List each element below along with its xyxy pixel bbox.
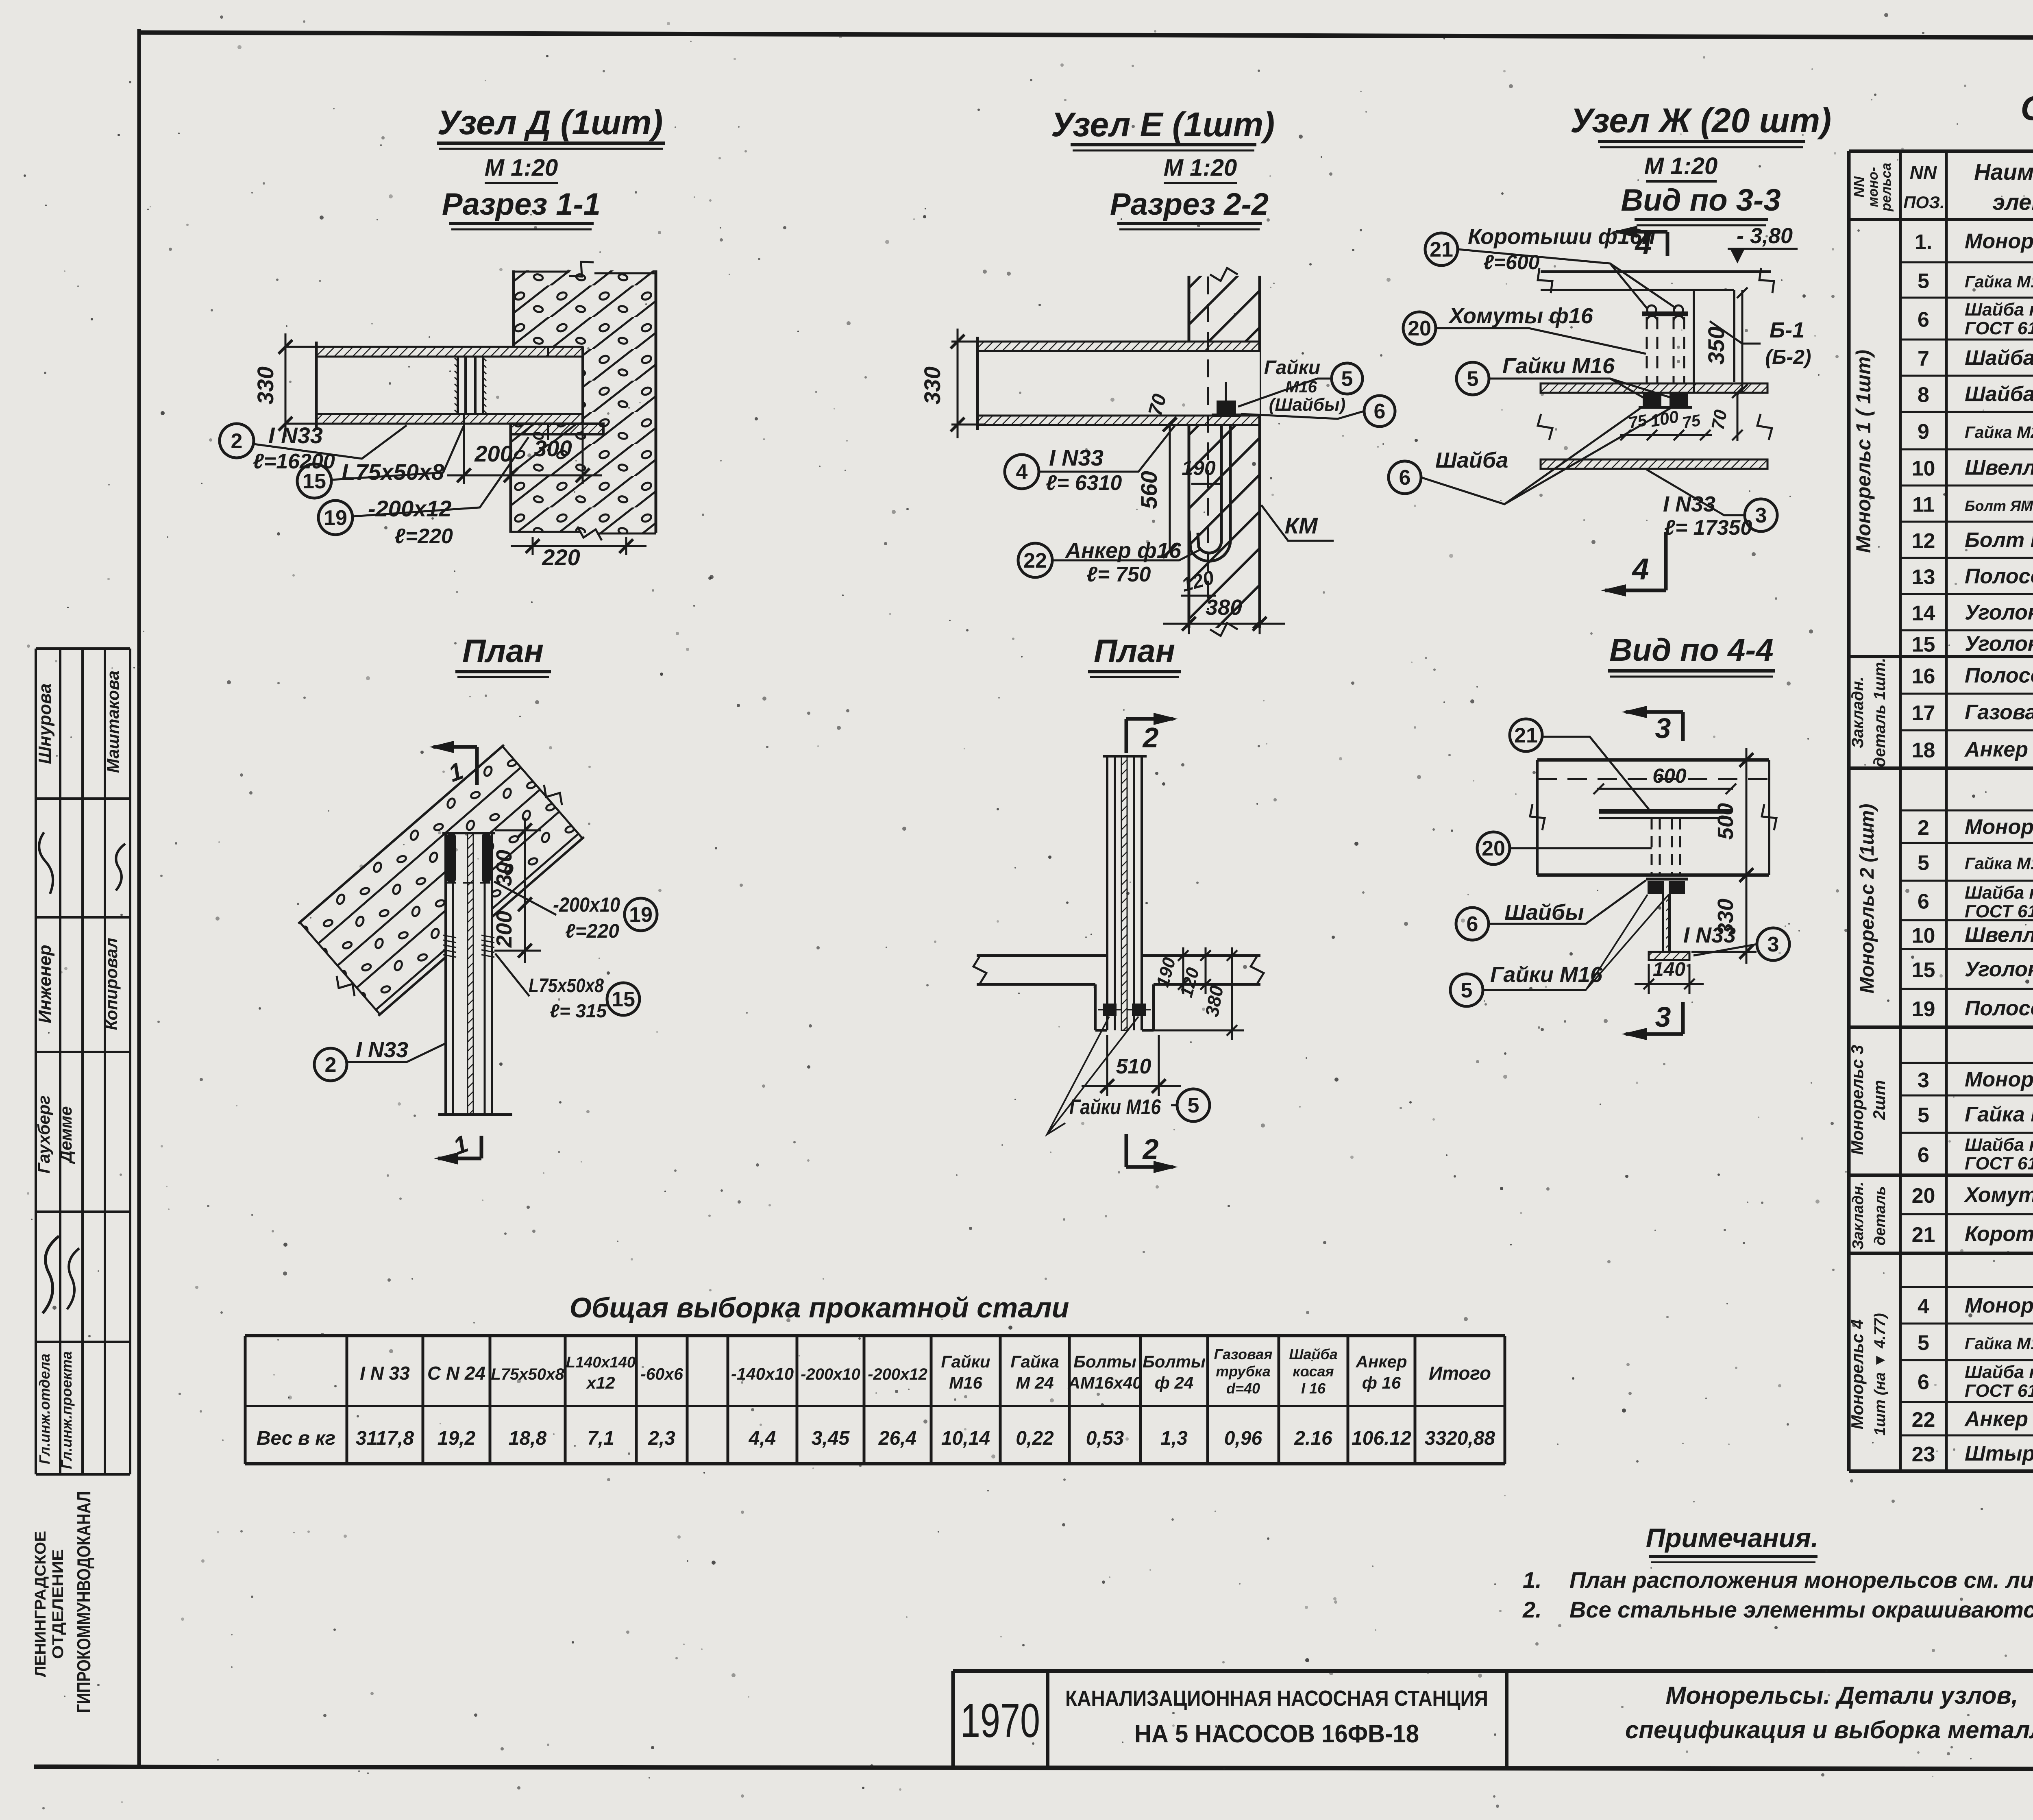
svg-text:350: 350 (1703, 327, 1729, 364)
svg-text:23: 23 (1912, 1443, 1935, 1466)
svg-text:Инженер: Инженер (35, 945, 55, 1023)
callout 19: -200x12 l=220 (318, 501, 353, 535)
svg-text:I 16: I 16 (1301, 1380, 1326, 1397)
svg-text:4,4: 4,4 (749, 1428, 776, 1449)
svg-text:Шайба косая I16: Шайба косая I16 (1965, 883, 2033, 903)
узел Е: dimension 330 (951, 341, 984, 343)
svg-text:4: 4 (1016, 460, 1028, 484)
узел Ж: hanger bolts (хомуты) dashed (1646, 317, 1648, 383)
svg-text:3320,88: 3320,88 (1425, 1428, 1495, 1449)
svg-text:Анкер: Анкер (1964, 738, 2028, 762)
svg-text:-200x12: -200x12 (368, 496, 452, 521)
svg-text:Гайка М16 ГОСТ 5909-51: Гайка М16 ГОСТ 5909-51 (1965, 854, 2033, 873)
svg-text:Гайка М16 ГОСТ 5909-51: Гайка М16 ГОСТ 5909-51 (1965, 1334, 2033, 1353)
svg-text:13: 13 (1912, 566, 1935, 589)
svg-text:300: 300 (534, 435, 572, 461)
svg-text:-200х10: -200х10 (801, 1365, 860, 1383)
svg-text:Болты: Болты (1143, 1352, 1206, 1371)
svg-text:Швеллер: Швеллер (1965, 923, 2033, 947)
svg-text:L75х50х8: L75х50х8 (491, 1365, 564, 1383)
svg-text:Гл.инж.отдела: Гл.инж.отдела (36, 1354, 53, 1464)
svg-text:2: 2 (1142, 1133, 1159, 1165)
svg-text:косая: косая (1293, 1363, 1334, 1380)
svg-text:Гайка: Гайка (1010, 1352, 1059, 1371)
узел Ж: slab lines (1541, 270, 1771, 273)
svg-text:1,3: 1,3 (1160, 1428, 1188, 1449)
callout 20 (вид 4-4) (1477, 832, 1510, 864)
план-2: dimension 510 (1106, 1035, 1108, 1096)
signature: band 5 squiggles (43, 1236, 59, 1313)
svg-text:Гл.инж.проекта: Гл.инж.проекта (58, 1351, 75, 1469)
svg-text:d=40: d=40 (1226, 1380, 1260, 1397)
svg-text:ГОСТ 6184-52: ГОСТ 6184-52 (1965, 1381, 2033, 1401)
svg-text:Коротыши ф16п: Коротыши ф16п (1468, 224, 1655, 249)
svg-text:Газовая: Газовая (1214, 1346, 1272, 1363)
svg-text:300: 300 (492, 850, 516, 886)
узел Д: bearing plate -200x12 (поз.19) (511, 424, 603, 434)
вид 4-4: beam web and bottom flange (1662, 894, 1664, 952)
svg-text:Полосовое железо: Полосовое железо (1965, 565, 2033, 588)
svg-text:Шайба косая I16: Шайба косая I16 (1965, 1135, 2033, 1155)
svg-text:Узел Ж (20 шт): Узел Ж (20 шт) (1570, 101, 1831, 139)
svg-text:Разрез 1-1: Разрез 1-1 (442, 187, 601, 222)
svg-text:21: 21 (1514, 724, 1538, 747)
svg-text:2: 2 (325, 1053, 337, 1077)
svg-text:2: 2 (231, 429, 243, 453)
svg-text:I N33: I N33 (356, 1038, 408, 1062)
svg-text:8: 8 (1918, 383, 1929, 407)
план-2: section marker 2 (top) (1125, 719, 1128, 753)
план-2: beam I N33 in plan (поз.4) (1106, 756, 1108, 1030)
svg-text:3: 3 (1767, 933, 1779, 956)
svg-text:Шайбы: Шайбы (1504, 900, 1584, 925)
svg-text:Б-1: Б-1 (1770, 318, 1804, 342)
svg-text:Штыри: Штыри (1965, 1442, 2033, 1465)
вид 4-4: slab rectangle (1537, 758, 1769, 762)
svg-text:2: 2 (1918, 816, 1929, 840)
svg-text:х12: х12 (586, 1373, 615, 1392)
svg-text:М 24: М 24 (1016, 1373, 1054, 1392)
callout 2: I N33 (план-1) (314, 1048, 347, 1081)
svg-text:ГОСТ 6184-52: ГОСТ 6184-52 (1965, 901, 2033, 921)
svg-text:спецификация и выборка мета: спецификация и выборка металла (1625, 1716, 2033, 1744)
svg-text:20: 20 (1408, 317, 1431, 340)
svg-text:Шайба: Шайба (1435, 448, 1508, 472)
svg-text:220: 220 (542, 544, 580, 570)
svg-text:5: 5 (1467, 367, 1479, 391)
узел Ж: dimension 350 (1741, 290, 1744, 392)
svg-text:18,8: 18,8 (509, 1428, 547, 1449)
спецификация: table grid (1849, 150, 2033, 153)
svg-text:21: 21 (1912, 1223, 1935, 1247)
svg-text:Закладн.: Закладн. (1850, 1182, 1867, 1250)
svg-text:12: 12 (1912, 529, 1935, 553)
выборка: table grid (245, 1334, 1505, 1337)
вид 4-4: dimension 500 (1746, 748, 1748, 886)
svg-text:Примечания.: Примечания. (1646, 1523, 1819, 1553)
svg-text:22: 22 (1912, 1408, 1935, 1432)
signature: band 2 squiggles (34, 832, 60, 894)
svg-text:70: 70 (1708, 408, 1731, 431)
svg-text:15: 15 (612, 988, 635, 1011)
план-1: plate -200x10 side bars (поз.19) (447, 833, 456, 883)
svg-text:Хомуты ф16: Хомуты ф16 (1448, 304, 1593, 328)
svg-text:-140х10: -140х10 (731, 1364, 794, 1383)
svg-text:Демме: Демме (56, 1106, 75, 1164)
узел Ж: beam Б-1 (Б-2) outline (1693, 290, 1695, 392)
svg-text:ℓ= 6310: ℓ= 6310 (1046, 471, 1122, 495)
svg-text:Монорельс: Монорельс (1965, 230, 2033, 253)
svg-text:Анкер: Анкер (1356, 1352, 1407, 1371)
callout 5: гайки М16 (план-2) (1177, 1089, 1210, 1121)
svg-text:элементов: элементов (1992, 189, 2033, 215)
узел Д: concrete wall hatched (514, 270, 656, 347)
узел Е: dimension 560 (1169, 425, 1171, 553)
svg-text:16: 16 (1912, 665, 1935, 688)
svg-text:18: 18 (1912, 739, 1935, 762)
узел Д: dimension 330 (beam height) (285, 346, 321, 348)
svg-text:6: 6 (1374, 400, 1386, 423)
план-1: section marker 1 (bottom) (480, 1136, 483, 1158)
svg-text:19: 19 (629, 903, 653, 927)
svg-text:7,1: 7,1 (587, 1428, 614, 1449)
svg-text:I N33: I N33 (1683, 923, 1736, 947)
svg-text:ℓ= 315: ℓ= 315 (550, 1000, 607, 1021)
svg-text:Гайки М16: Гайки М16 (1502, 354, 1615, 378)
svg-text:15: 15 (1912, 958, 1935, 982)
svg-text:М 1:20: М 1:20 (1164, 155, 1237, 181)
callout 20: хомуты ф16 (1403, 312, 1436, 344)
svg-text:рельса: рельса (1878, 163, 1894, 211)
svg-text:0,22: 0,22 (1016, 1428, 1054, 1449)
svg-text:Узел Е (1шт): Узел Е (1шт) (1051, 105, 1275, 144)
svg-text:Шайба косая I16: Шайба косая I16 (1965, 300, 2033, 320)
план-1: concrete wall band (diagonal) (298, 745, 584, 1016)
план-1: beam I N33 in plan (поз.2) (446, 833, 492, 1115)
svg-text:Гайка М24 ГОСТ 5909-57: Гайка М24 ГОСТ 5909-57 (1965, 423, 2033, 442)
svg-text:6: 6 (1399, 466, 1411, 490)
вид 4-4: hangers dashed (1651, 818, 1653, 875)
svg-text:4: 4 (1631, 552, 1649, 586)
план-2: dimensions 190 120 380 (1142, 955, 1244, 957)
узел Ж: dimension 70 (1737, 393, 1739, 441)
svg-text:14: 14 (1912, 602, 1935, 625)
svg-text:Монорельс 3: Монорельс 3 (1848, 1045, 1867, 1155)
svg-text:0,96: 0,96 (1224, 1428, 1262, 1449)
svg-text:3: 3 (1655, 712, 1671, 744)
svg-text:деталь: деталь (1872, 1186, 1889, 1245)
svg-text:3117,8: 3117,8 (356, 1428, 414, 1449)
svg-text:КАНАЛИЗАЦИОННАЯ НАСОСНАЯ: КАНАЛИЗАЦИОННАЯ НАСОСНАЯ СТАНЦИЯ (1065, 1686, 1488, 1711)
svg-text:Хомут: Хомут (1963, 1183, 2033, 1207)
svg-text:20: 20 (1482, 837, 1505, 860)
callout 21: коротыши ф16п l=600 (1425, 233, 1458, 266)
svg-text:0,53: 0,53 (1086, 1428, 1124, 1449)
svg-text:Коротыш: Коротыш (1965, 1222, 2033, 1246)
svg-text:2.: 2. (1522, 1597, 1542, 1622)
svg-text:Уголок: Уголок (1965, 958, 2033, 981)
вид 4-4: section marker 3 (bottom) (1681, 1002, 1685, 1034)
svg-text:5: 5 (1918, 270, 1929, 293)
svg-text:5: 5 (1918, 851, 1929, 875)
svg-text:Полосовое железо: Полосовое железо (1965, 664, 2033, 688)
svg-text:ℓ=220: ℓ=220 (394, 525, 453, 548)
svg-text:190: 190 (1182, 457, 1216, 479)
svg-text:ГИПРОКОММУНВОДОКАНАЛ: ГИПРОКОММУНВОДОКАНАЛ (73, 1491, 94, 1713)
svg-text:Вид по 3-3: Вид по 3-3 (1621, 183, 1781, 218)
callout 3: I N33 (вид 4-4) (1757, 928, 1789, 960)
svg-text:Гайка М16 ГОСТ 5909-51: Гайка М16 ГОСТ 5909-51 (1965, 272, 2033, 291)
callout 3: I N33 l=17350 (1745, 499, 1777, 531)
title block frame (953, 1669, 2033, 1673)
вид 4-4: section marker 3 (top) (1626, 710, 1683, 714)
svg-text:4: 4 (1918, 1295, 1929, 1318)
svg-text:7: 7 (1918, 347, 1929, 371)
svg-text:19: 19 (324, 506, 347, 530)
узел Ж: dimensions 75 100 75 (1620, 434, 1712, 436)
svg-text:330: 330 (919, 366, 945, 404)
svg-text:ф 24: ф 24 (1155, 1373, 1194, 1392)
svg-text:М 1:20: М 1:20 (485, 155, 558, 181)
узел Ж: section marker 4 (bottom) (1664, 532, 1668, 590)
svg-text:9: 9 (1918, 420, 1929, 444)
svg-text:1.: 1. (1915, 231, 1932, 254)
svg-text:26,4: 26,4 (878, 1428, 916, 1449)
svg-text:2.16: 2.16 (1294, 1428, 1332, 1449)
svg-text:22: 22 (1023, 549, 1047, 573)
callout 6: шайбы (вид 4-4) (1456, 908, 1489, 940)
узел Д: monorail beam I N33 (поз.2) section (316, 357, 583, 414)
svg-text:Анкер ф16: Анкер ф16 (1064, 538, 1182, 563)
svg-text:М16: М16 (949, 1373, 982, 1392)
svg-text:Гайки: Гайки (941, 1352, 990, 1371)
svg-text:-60х6: -60х6 (640, 1365, 683, 1383)
svg-text:Болт ЯМ16х40 ГОСТ 7790-57: Болт ЯМ16х40 ГОСТ 7790-57 (1965, 498, 2033, 514)
svg-text:ГОСТ 6184-52: ГОСТ 6184-52 (1965, 318, 2033, 338)
svg-text:6: 6 (1918, 1371, 1929, 1394)
svg-text:Закладн.: Закладн. (1849, 677, 1867, 748)
svg-text:трубка: трубка (1216, 1363, 1271, 1380)
svg-text:ОТДЕЛЕНИЕ: ОТДЕЛЕНИЕ (50, 1549, 67, 1659)
svg-text:План: План (1094, 633, 1175, 669)
svg-text:380: 380 (1206, 595, 1242, 620)
svg-text:Газовая трубка: Газовая трубка (1965, 701, 2033, 724)
callout 2: I N33 l=16200 (220, 424, 254, 458)
svg-text:I N33: I N33 (1049, 445, 1104, 470)
svg-text:6: 6 (1918, 890, 1929, 914)
svg-text:10,14: 10,14 (941, 1428, 990, 1449)
svg-text:200: 200 (492, 911, 516, 948)
svg-text:ℓ= 17350: ℓ= 17350 (1664, 516, 1752, 540)
svg-text:Вид по 4-4: Вид по 4-4 (1609, 632, 1774, 668)
svg-text:-200x10: -200x10 (553, 893, 620, 916)
svg-text:5: 5 (1918, 1331, 1929, 1355)
спецификация: group divider thick lines (1849, 655, 2033, 658)
svg-text:Монорельсы. Детали узлов,: Монорельсы. Детали узлов, (1666, 1682, 2018, 1709)
callout 15: L75x50x8 l=315 (план-1) (607, 983, 640, 1015)
svg-text:ГОСТ 6184- 52: ГОСТ 6184- 52 (1965, 1154, 2033, 1173)
вид 4-4: dimension 600 (1597, 788, 1733, 790)
svg-text:Гайки М16: Гайки М16 (1490, 962, 1603, 987)
узел Е: anchor axis dashed (1207, 276, 1209, 610)
svg-text:15: 15 (303, 470, 326, 493)
svg-text:Шайба: Шайба (1965, 346, 2033, 370)
svg-text:C N 24: C N 24 (427, 1363, 485, 1384)
svg-text:Монорельс: Монорельс (1965, 815, 2033, 839)
svg-text:5: 5 (1341, 367, 1353, 391)
svg-text:L140х140: L140х140 (566, 1354, 636, 1371)
svg-text:20: 20 (1912, 1184, 1935, 1208)
svg-text:6: 6 (1467, 912, 1478, 936)
svg-text:ПОЗ.: ПОЗ. (1903, 193, 1945, 212)
svg-text:Монорельс 4: Монорельс 4 (1848, 1319, 1867, 1430)
svg-text:АМ16х40: АМ16х40 (1067, 1373, 1142, 1392)
callout 21 (вид 4-4) (1510, 719, 1542, 751)
svg-text:Гайки: Гайки (1264, 357, 1321, 379)
svg-text:Шайба: Шайба (1965, 383, 2033, 406)
svg-text:Болты: Болты (1073, 1352, 1136, 1371)
svg-text:1шт (на ▼ 4.77): 1шт (на ▼ 4.77) (1872, 1313, 1889, 1435)
svg-text:600: 600 (1652, 764, 1687, 787)
svg-text:ℓ= 750: ℓ= 750 (1086, 563, 1151, 586)
вид 4-4: nuts and washers (1646, 878, 1667, 881)
svg-text:Вес в кг: Вес в кг (257, 1428, 335, 1449)
план-1: section marker 1 (top) (433, 745, 477, 749)
svg-text:140: 140 (1653, 959, 1685, 980)
svg-text:5: 5 (1918, 1104, 1929, 1127)
svg-text:М 1:20: М 1:20 (1644, 153, 1718, 179)
вид 4-4: dimension 140 (1648, 964, 1650, 994)
svg-text:NN: NN (1910, 162, 1937, 183)
callout 19: -200x10 l=220 (план-1) (625, 898, 657, 931)
svg-text:106.12: 106.12 (1352, 1428, 1411, 1449)
svg-text:3: 3 (1755, 504, 1767, 527)
callout 5: гайки М16 (вид 4-4) (1450, 974, 1483, 1006)
svg-text:Спецификация металла: Спецификация металла (2020, 89, 2033, 127)
svg-text:Монорельс: Монорельс (1965, 1068, 2033, 1091)
svg-text:ℓ=220: ℓ=220 (565, 921, 619, 942)
svg-text:Уголок: Уголок (1965, 601, 2033, 625)
узел Е: nut and washer М16 (1217, 401, 1236, 415)
svg-text:2: 2 (1142, 722, 1159, 753)
svg-text:3: 3 (1918, 1069, 1929, 1092)
svg-text:2шт: 2шт (1870, 1080, 1889, 1120)
узел Д: web stiffeners with welds (457, 357, 459, 414)
svg-text:19,2: 19,2 (438, 1428, 476, 1449)
svg-text:-200х12: -200х12 (868, 1365, 927, 1383)
svg-text:Гайки М16: Гайки М16 (1069, 1095, 1161, 1119)
узел Ж: nuts below flange (1643, 393, 1661, 407)
узел Е: beam I N33 (поз.4) section (977, 351, 1260, 416)
svg-text:2,3: 2,3 (648, 1428, 675, 1449)
узел Е: dimension 380 (1188, 592, 1190, 634)
svg-text:- 3,80: - 3,80 (1737, 224, 1793, 248)
svg-text:Монорельс 2 (1шт): Монорельс 2 (1шт) (1857, 804, 1878, 994)
svg-text:L75x50x8: L75x50x8 (342, 459, 444, 485)
svg-text:Уголок: Уголок (1965, 632, 2033, 656)
svg-text:Маштакова: Маштакова (103, 671, 122, 773)
узел Е: anchor bolt ф16 hook (1198, 425, 1221, 553)
signature table (36, 647, 130, 650)
svg-text:3,45: 3,45 (812, 1428, 850, 1449)
callout 6: шайбы (узел Е) (1364, 396, 1395, 427)
callout 4: I N33 l=6310 (1005, 455, 1039, 489)
paper speckle noise (decorative) (1703, 56, 1705, 59)
вид 4-4: embedded bar (коротыш) (1599, 809, 1731, 814)
план-1: dimension 300 / 200 (495, 829, 541, 832)
узел Ж: коротыш bar on top (1642, 311, 1688, 316)
svg-text:11: 11 (1912, 493, 1935, 517)
svg-text:Гайка М16: Гайка М16 (1965, 1103, 2033, 1126)
svg-text:510: 510 (1116, 1055, 1151, 1078)
svg-text:Все стальные элементы ок: Все стальные элементы окрашиваются камен… (1569, 1597, 2033, 1622)
svg-text:Общая выборка прокатной ста: Общая выборка прокатной стали (570, 1292, 1069, 1324)
svg-text:Шайба косая I16: Шайба косая I16 (1965, 1362, 2033, 1382)
svg-text:НА 5 НАСОСОВ 16ФВ-18: НА 5 НАСОСОВ 16ФВ-18 (1134, 1720, 1419, 1748)
svg-text:Узел Д (1шт): Узел Д (1шт) (438, 103, 663, 142)
svg-text:деталь 1шт.: деталь 1шт. (1871, 658, 1889, 767)
план-2: section marker 2 (bottom) (1125, 1134, 1128, 1167)
callout 22: анкер ф16 l=750 (1018, 543, 1052, 577)
svg-text:Монорельс: Монорельс (1965, 1294, 2033, 1317)
узел Ж: monorail beam I N33 (поз.3) (1541, 383, 1767, 393)
svg-text:19: 19 (1912, 997, 1935, 1021)
svg-text:Шнурова: Шнурова (35, 684, 55, 764)
svg-text:Болт М24: Болт М24 (1965, 529, 2033, 552)
svg-text:I N 33: I N 33 (360, 1363, 410, 1384)
svg-text:1.: 1. (1523, 1567, 1542, 1593)
svg-text:17: 17 (1912, 701, 1935, 725)
svg-text:Наименование: Наименование (1974, 159, 2033, 185)
svg-text:Монорельс 1 ( 1шт): Монорельс 1 ( 1шт) (1852, 350, 1875, 553)
svg-text:Гаухберг: Гаухберг (34, 1095, 53, 1173)
svg-text:L75x50x8: L75x50x8 (529, 975, 604, 997)
svg-text:Итого: Итого (1429, 1363, 1491, 1384)
svg-text:10: 10 (1912, 457, 1935, 481)
svg-text:ЛЕНИНГРАДСКОЕ: ЛЕНИНГРАДСКОЕ (32, 1531, 49, 1677)
callout 15: L75x50x8 (297, 464, 331, 498)
svg-text:(Б-2): (Б-2) (1765, 346, 1811, 368)
узел Д: dimension 220 below wall (532, 537, 534, 555)
svg-text:500: 500 (1713, 803, 1738, 840)
svg-text:План: План (462, 633, 544, 669)
svg-text:КМ: КМ (1284, 513, 1318, 538)
svg-text:75: 75 (1681, 411, 1702, 432)
svg-text:Шайба: Шайба (1289, 1346, 1338, 1363)
svg-text:15: 15 (1912, 633, 1935, 657)
svg-text:3: 3 (1655, 1001, 1671, 1033)
callout 6: шайба (узел Ж) (1389, 461, 1421, 494)
svg-text:1970: 1970 (960, 1694, 1040, 1748)
svg-text:Анкер: Анкер (1964, 1407, 2028, 1431)
план-1: weld marks (443, 935, 456, 938)
svg-text:I N33: I N33 (268, 422, 323, 448)
svg-text:6: 6 (1918, 1143, 1929, 1167)
svg-text:330: 330 (252, 366, 278, 404)
svg-text:5: 5 (1461, 979, 1473, 1002)
svg-text:NN: NN (1851, 176, 1868, 198)
svg-text:ф 16: ф 16 (1362, 1373, 1401, 1392)
узел Д: dimension line 200 / 300 (463, 414, 465, 484)
svg-text:560: 560 (1136, 471, 1162, 509)
callout 5: гайки М16 (узел Ж) (1456, 362, 1489, 395)
вид 4-4: dimension 330 (1746, 886, 1748, 964)
svg-text:200: 200 (474, 441, 512, 466)
узел Е: wall hatched (1189, 276, 1260, 342)
svg-text:21: 21 (1430, 238, 1453, 261)
svg-text:(Шайбы): (Шайбы) (1269, 395, 1346, 415)
svg-text:6: 6 (1918, 308, 1929, 332)
